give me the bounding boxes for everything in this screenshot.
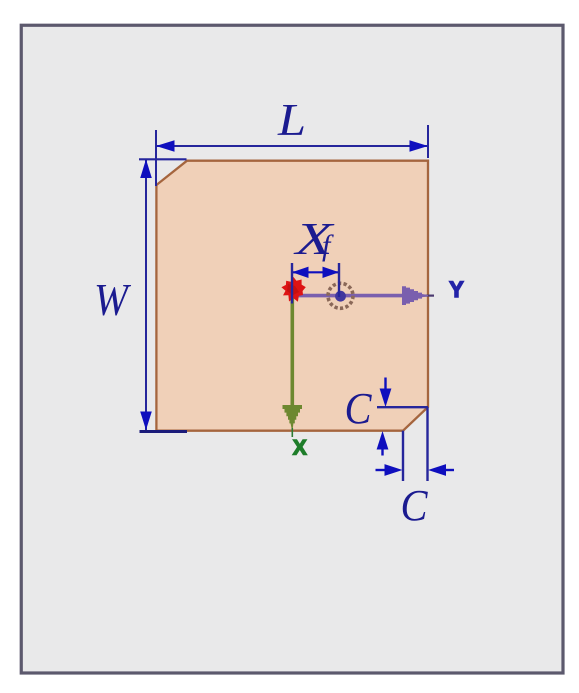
dimension C horizontal: left arrow tail: [376, 469, 389, 471]
dimension W: top arrowhead: [140, 159, 152, 178]
local CS circle symbol: [328, 283, 353, 308]
dimension C (cut width, horizontal): extension line left: [402, 431, 404, 481]
feed point marker (red): [281, 277, 305, 302]
Y axis arrowhead (stepped): [402, 286, 428, 305]
X axis arrowhead (stepped): [283, 405, 303, 430]
dimension Xf: tick right (over circle): [338, 263, 340, 297]
dimension Xf: right arrowhead: [323, 267, 340, 278]
dimension C (cut depth, vertical): cut-top line: [377, 406, 428, 408]
dimension W: extension line bottom: [140, 430, 188, 433]
dimension C horizontal: right arrowhead (left): [428, 464, 446, 476]
dimension L: dimension line: [156, 145, 428, 147]
dimension L: right arrowhead: [410, 140, 429, 152]
dimension L: extension line left: [155, 130, 157, 186]
svg-text:C: C: [401, 481, 429, 530]
svg-text:X: X: [293, 437, 307, 460]
dimension C vertical: upper arrow tail: [384, 378, 386, 393]
Y axis (purple) shaft: [292, 294, 410, 298]
svg-text:W: W: [94, 274, 131, 325]
dimension W: dimension line: [145, 159, 147, 430]
dimension Xf: tick left (over marker): [291, 263, 293, 304]
svg-text:C: C: [345, 384, 373, 433]
svg-text:Y: Y: [449, 277, 464, 302]
dimension Xf: left arrowhead: [292, 267, 309, 278]
dimension W: bottom arrowhead: [140, 412, 152, 431]
svg-text:L: L: [277, 94, 306, 145]
Y axis arrowhead tip spike: [424, 295, 434, 297]
dimension C horizontal: extension line right: [426, 407, 428, 481]
feed point darker speck: [287, 284, 299, 295]
X axis (green) shaft: [290, 296, 294, 408]
dimension L: left arrowhead: [156, 140, 175, 152]
dimension C vertical: upper arrowhead (down): [380, 389, 392, 408]
dimension C vertical: lower arrowhead (up): [377, 431, 389, 450]
X axis tip spike: [291, 428, 293, 437]
patch (truncated-corner microstrip patch): [156, 161, 428, 431]
dimension C vertical: lower arrow tail: [381, 446, 383, 456]
dimension Xf: dimension line: [292, 271, 339, 273]
dimension L: extension line right: [427, 125, 429, 158]
dimension C horizontal: right arrow tail: [442, 469, 454, 471]
dimension C horizontal: left arrowhead (right): [385, 464, 403, 476]
dimension W: extension line top: [139, 158, 187, 160]
